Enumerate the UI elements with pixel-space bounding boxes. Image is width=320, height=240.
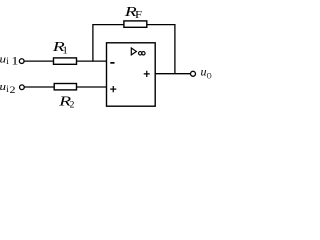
svg-text:F: F xyxy=(135,10,143,21)
svg-text:O: O xyxy=(207,71,212,80)
svg-text:1: 1 xyxy=(62,45,68,57)
svg-text:2: 2 xyxy=(10,85,16,95)
svg-text:2: 2 xyxy=(70,101,75,111)
svg-text:1: 1 xyxy=(11,55,18,67)
svg-text:u: u xyxy=(201,64,207,78)
